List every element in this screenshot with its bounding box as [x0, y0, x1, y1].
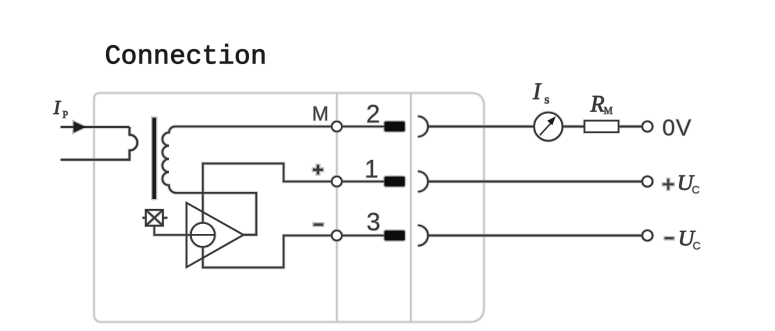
label -Uc [665, 237, 674, 239]
connector socket 2 [418, 116, 428, 136]
svg-text:M: M [604, 106, 613, 117]
wire row1 to meter [428, 125, 534, 127]
svg-text:C: C [692, 185, 700, 197]
connector socket 1 [418, 171, 428, 191]
svg-text:0V: 0V [662, 115, 692, 141]
label +Uc [663, 179, 674, 190]
terminal circle + [332, 177, 342, 187]
terminal circle - [332, 231, 342, 241]
pin 2 blob [384, 122, 404, 132]
svg-text:M: M [312, 103, 329, 125]
flux detector box [142, 210, 167, 226]
label minus (pin) [314, 223, 324, 225]
resistor RM [585, 121, 619, 133]
wire flux box to amp input [154, 226, 191, 235]
wire row2 [428, 180, 642, 182]
wire + to pin1 [342, 181, 385, 183]
enclosure box [94, 93, 484, 322]
svg-text:s: s [544, 92, 549, 107]
divider line 2 [410, 93, 412, 322]
primary arrowhead [74, 121, 86, 132]
op-amp triangle [187, 203, 244, 267]
terminal 0V [642, 121, 652, 131]
terminal circle M [332, 122, 342, 132]
pin 1 blob [384, 177, 404, 187]
ammeter needle [540, 124, 551, 136]
label plus (pin) [313, 165, 323, 175]
pin 3 blob [384, 231, 404, 241]
terminal +Uc [642, 176, 652, 186]
svg-text:1: 1 [365, 155, 379, 183]
connector socket 3 [418, 225, 428, 245]
terminal -Uc [642, 230, 652, 240]
svg-text:R: R [590, 91, 605, 116]
divider line 1 [336, 93, 338, 322]
core bar [152, 118, 156, 199]
svg-text:3: 3 [366, 208, 380, 236]
wire row3 [428, 234, 642, 236]
svg-text:C: C [693, 240, 701, 252]
svg-text:Connection: Connection [105, 43, 267, 73]
ammeter Is [534, 113, 562, 141]
feedback line - [203, 236, 333, 268]
svg-text:P: P [63, 110, 69, 121]
svg-text:2: 2 [366, 100, 380, 128]
wire M to pin2 [342, 126, 385, 128]
primary conductor shape [61, 127, 138, 160]
wire resistor to 0V [619, 125, 643, 127]
primary top wire [61, 126, 130, 128]
wire - to pin3 [342, 235, 385, 237]
secondary winding and wire to M [162, 127, 333, 235]
current source circle [191, 223, 215, 247]
wire meter to resistor [562, 125, 584, 127]
feedback line + [203, 164, 333, 224]
svg-text:I: I [532, 79, 542, 104]
svg-text:I: I [53, 97, 62, 119]
current source bar [191, 234, 214, 236]
